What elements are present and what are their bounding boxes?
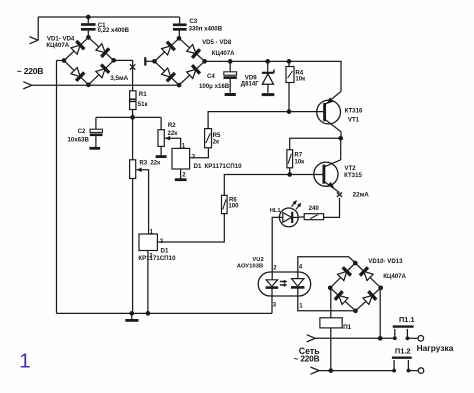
label 3,5mA	[110, 75, 128, 82]
label R7 value	[294, 159, 305, 166]
HL1 light arrows	[292, 200, 302, 209]
node: bridge3 right	[378, 285, 383, 290]
current break mark X (22mA)	[337, 192, 342, 197]
label KT316	[345, 108, 363, 115]
label C1	[98, 22, 106, 29]
node: bridge2 bottom	[177, 83, 182, 88]
wire: bottom AC line to bridge VD1-VD4 and VD5-VD8	[32, 84, 179, 86]
page number 1	[19, 351, 30, 373]
svg-text:10х63В: 10х63В	[68, 137, 90, 144]
IC D1 (КР1171СП10, lower) box	[139, 234, 157, 251]
svg-text:2к: 2к	[213, 138, 220, 145]
svg-text:C2: C2	[78, 128, 86, 135]
label KT315	[344, 172, 362, 179]
node: bridge1 top	[86, 35, 91, 40]
label VT2	[345, 165, 357, 172]
node: R4 / VT1 base line	[287, 109, 292, 114]
pin 4 label (VU2)	[299, 265, 303, 271]
current break mark X (3,5mA)	[130, 64, 135, 69]
svg-text:22к: 22к	[150, 160, 161, 167]
pin 2 label (VU2)	[273, 265, 277, 271]
svg-text:Нагрузка: Нагрузка	[417, 343, 454, 353]
VT1 emitter arrow (to base)	[326, 97, 333, 104]
node: ground junction	[129, 311, 134, 316]
diode VD1 (bridge arm left-top)	[71, 41, 84, 54]
svg-text:R1: R1	[139, 91, 147, 98]
label AOU103V	[237, 263, 263, 269]
wire: bridge3 left node down through relay	[330, 288, 332, 318]
capacitor C3	[173, 17, 187, 38]
node: rail/R4	[287, 59, 292, 64]
node: bridge1 right	[111, 58, 116, 63]
node: bridge1 bottom	[86, 82, 91, 87]
VT1 collector lead	[326, 91, 341, 104]
diode VD13 (bridge arm bottom-right)	[363, 291, 376, 304]
VT1 base bar	[323, 103, 326, 121]
VU2 photodiode	[291, 272, 304, 296]
node: D1 pin2 junction on rail	[146, 311, 151, 316]
diode VD8 (bridge arm bottom-right)	[187, 65, 200, 78]
node: rail/VD9	[265, 59, 270, 64]
wire: input up to top rail	[37, 17, 39, 41]
transistor VT2 KT315 (circle)	[314, 162, 338, 186]
capacitor C1	[81, 17, 96, 37]
svg-text:2: 2	[273, 265, 277, 271]
HL1 diode symbol	[279, 212, 298, 223]
VT1 emitter lead	[326, 120, 341, 138]
diode VD7 (bridge arm left-bottom)	[162, 68, 175, 81]
wire: common rail (bottom)	[57, 312, 273, 314]
node: relay coil / lower mains	[328, 368, 333, 373]
IC D1 (КР1171СП10) box	[172, 148, 190, 169]
common bar (R2 bottom)	[156, 146, 167, 156]
label KTs407A (VD10-VD13)	[383, 273, 406, 280]
LED HL1 (circle)	[279, 208, 298, 227]
svg-text:330п х400В: 330п х400В	[189, 25, 223, 32]
transistor VT1 KT316 (circle)	[317, 100, 341, 124]
wire: lower mains wire	[319, 370, 394, 372]
node: VT1 emitter / VT2 collector / R7	[338, 136, 343, 141]
svg-text:3: 3	[273, 303, 277, 309]
svg-text:~ 220В: ~ 220В	[294, 354, 320, 364]
stub terminal at bridge2 left node	[145, 57, 154, 65]
svg-text:КЦ407А: КЦ407А	[383, 273, 406, 280]
label C1 value	[98, 27, 130, 34]
label VT1	[348, 117, 360, 124]
resistor R5	[205, 129, 212, 148]
svg-text:22мА: 22мА	[353, 192, 370, 199]
svg-text:П1.1: П1.1	[399, 315, 415, 324]
diode VD6 (bridge arm top-right)	[187, 45, 200, 58]
wire: VU2 pin 3 to common rail	[271, 296, 273, 313]
label D1 (lower)	[161, 247, 169, 254]
wire: VU2 pin 1 to bridge3 bottom	[298, 296, 356, 311]
label KTs407A (VD5-VD8)	[212, 50, 235, 57]
mains input terminal (lower)	[311, 367, 320, 374]
label R3 value	[150, 160, 161, 167]
wire: bridge1 right node to R1	[114, 60, 133, 90]
node: bridge2 right	[202, 59, 207, 64]
wire: node to R7	[290, 138, 341, 150]
wire: bridge1 left node to left rail	[57, 60, 65, 62]
resistor R2 (trimmer)	[158, 130, 164, 147]
svg-text:51к: 51к	[138, 101, 149, 108]
zener diode VD9	[262, 61, 274, 92]
diode bridge VD1-VD4 outline	[64, 37, 114, 84]
svg-text:C4: C4	[207, 73, 215, 80]
label Nagruzka (load)	[417, 343, 454, 353]
pin 3 label (VU2)	[273, 303, 277, 309]
diode bridge VD10-VD13 outline	[330, 263, 381, 311]
label VD1-VD4	[47, 35, 75, 42]
label R1	[139, 91, 147, 98]
common bar (C4 negative)	[225, 93, 236, 96]
pin 2 of lower D1 to common rail	[147, 251, 149, 314]
pin 3 label (D1 lower)	[160, 239, 164, 245]
VT2 emitter arrow	[328, 182, 335, 188]
VU2 coupling arrows	[280, 280, 288, 287]
wire: R3 bottom to common rail	[132, 179, 134, 314]
svg-text:КР1171СП10: КР1171СП10	[138, 255, 176, 262]
node: R1/C2/R2/R3 junction	[130, 115, 135, 120]
svg-text:1: 1	[299, 304, 303, 310]
capacitor C2 (electrolytic)	[90, 117, 103, 147]
svg-text:VU2: VU2	[252, 257, 263, 263]
label C4 value	[199, 83, 230, 90]
VT2 emitter lead	[325, 182, 340, 193]
wire: bridge3 right node down	[379, 288, 381, 339]
wire: left rail (negative) down	[56, 61, 58, 314]
label R5	[213, 132, 221, 139]
wire: relay coil to lower mains wire	[330, 328, 332, 371]
wire: VT2 emitter to resistor 240	[324, 198, 340, 218]
label VD5-VD8	[202, 39, 232, 46]
svg-text:VT1: VT1	[348, 117, 360, 124]
label R4 value	[295, 76, 306, 83]
resistor R4	[286, 61, 294, 111]
wiper of R3 to pin 1 of D1 (second)	[136, 168, 148, 235]
svg-text:100: 100	[228, 203, 239, 210]
node: bridge2 top	[177, 36, 182, 41]
relay coil P1	[320, 318, 342, 328]
label R2 value	[168, 130, 179, 137]
svg-text:2: 2	[182, 173, 186, 179]
svg-text:3,5мА: 3,5мА	[110, 75, 128, 82]
svg-text:HL1: HL1	[270, 208, 281, 214]
node: upper mains / bridge3 right	[378, 336, 383, 341]
wire: 240 to HL1	[298, 216, 304, 218]
label 240	[309, 205, 320, 212]
svg-text:Д814Г: Д814Г	[241, 81, 260, 88]
resistor R1	[130, 91, 136, 110]
wire: R6 top to VT2 base line	[224, 175, 322, 196]
diode VD4 (bridge arm bottom-right)	[96, 65, 109, 78]
label VU2	[252, 257, 263, 263]
label KR1171SP10 (lower)	[138, 255, 176, 262]
svg-text:~ 220В: ~ 220В	[17, 66, 44, 76]
wire: junction bus	[96, 116, 161, 118]
diode VD10 (bridge arm left-top)	[338, 267, 351, 280]
resistor 240	[304, 214, 323, 220]
node: bridge3 bottom	[353, 308, 358, 313]
label HL1	[270, 208, 281, 214]
svg-text:D1: D1	[161, 247, 169, 254]
svg-text:0,22 х400В: 0,22 х400В	[98, 27, 130, 34]
node: bridge3 top	[353, 261, 358, 266]
optocoupler VU2 body	[258, 272, 311, 296]
node: rail/C4	[228, 59, 233, 64]
diode bridge VD5-VD8 outline	[155, 38, 205, 85]
svg-text:D1: D1	[194, 163, 202, 170]
wire: junction to R3	[132, 117, 134, 159]
svg-text:4: 4	[299, 265, 303, 271]
label R5 value	[213, 138, 220, 145]
svg-text:1: 1	[19, 351, 30, 373]
label P1.1	[399, 315, 415, 324]
label R6 value	[228, 203, 239, 210]
label D1	[194, 163, 202, 170]
resistor R3 (trimmer)	[130, 160, 136, 179]
mains input terminal (upper)	[307, 335, 316, 342]
svg-text:КТ316: КТ316	[345, 108, 363, 115]
diode VD12 (bridge arm bottom-left)	[335, 291, 348, 304]
diode VD5 (bridge arm left-top)	[162, 42, 175, 55]
label VD10-VD13	[368, 258, 403, 265]
label R2	[168, 122, 176, 129]
label KTs407A (VD1-VD4)	[46, 42, 69, 49]
common bar (C2 negative)	[89, 147, 100, 150]
wire: upper mains wire	[315, 337, 395, 339]
label P1	[343, 324, 352, 331]
wire: bus to R2	[160, 117, 162, 129]
input terminal (AC line, bottom)	[23, 82, 32, 89]
label C3	[189, 18, 197, 25]
label KR1171SP10	[205, 163, 243, 170]
wire: R7 to VT2 base line	[289, 168, 291, 175]
relay contact P1.1	[393, 327, 424, 342]
svg-text:100μ х16В: 100μ х16В	[199, 83, 230, 90]
wiper of R2 to pin 1 of D1	[165, 136, 181, 149]
svg-text:10к: 10к	[294, 159, 305, 166]
label R3	[139, 160, 147, 167]
label R4	[295, 69, 303, 76]
pin 2 label (D1)	[182, 173, 186, 179]
pin 2 of D1 with common bar	[175, 169, 187, 180]
pin 3 of lower D1 to R6	[157, 214, 224, 242]
label R7	[294, 151, 302, 158]
label C3 value	[189, 25, 223, 32]
wire: R1 bottom to junction	[132, 110, 134, 118]
wire: HL1 to optocoupler pin 2	[272, 217, 279, 272]
svg-text:КЦ407А: КЦ407А	[212, 50, 235, 57]
diode VD3 (bridge arm left-bottom)	[71, 68, 84, 81]
label R6	[229, 197, 237, 204]
diode VD2 (bridge arm top-right)	[96, 44, 109, 57]
pin 2 label (D1 lower)	[149, 254, 153, 260]
node: bridge1 left	[62, 58, 67, 63]
svg-text:П1: П1	[343, 324, 352, 331]
pin 3 label (D1)	[192, 155, 196, 161]
label C4	[207, 73, 215, 80]
input terminal (AC line, top)	[30, 37, 39, 44]
node: R7 / VT2 base	[287, 172, 292, 177]
svg-text:10к: 10к	[295, 76, 306, 83]
svg-text:КР1171СП10: КР1171СП10	[205, 163, 243, 170]
svg-text:22к: 22к	[168, 130, 179, 137]
resistor R6	[222, 195, 228, 213]
pin 1 label (D1)	[182, 144, 186, 150]
svg-text:VD10- VD13: VD10- VD13	[368, 258, 403, 265]
svg-text:АОУ103В: АОУ103В	[237, 263, 263, 269]
wire: VU2 pin 4 to bridge3 top	[298, 257, 356, 272]
label VD9	[245, 75, 257, 82]
svg-text:КТ315: КТ315	[344, 172, 362, 179]
common bar (VD9 anode)	[262, 93, 275, 96]
node: top rail / C1 junction	[86, 15, 91, 20]
diode VD11 (bridge arm right-top)	[360, 267, 373, 280]
label R1 value	[138, 101, 149, 108]
svg-text:R2: R2	[168, 122, 176, 129]
label P1.2	[395, 347, 411, 356]
svg-text:VD5 - VD8: VD5 - VD8	[202, 39, 232, 46]
ground	[125, 313, 138, 320]
svg-text:R3: R3	[139, 160, 147, 167]
label C2 value	[68, 137, 90, 144]
label ~220V (mains)	[294, 354, 320, 364]
label C2	[78, 128, 86, 135]
wire: R5 top to VT1 base line	[208, 112, 323, 129]
pin 3 of D1 to R5	[190, 148, 209, 158]
label D814G	[241, 81, 260, 88]
label 22mA	[353, 192, 370, 199]
wire: +9V rail from bridge2 to VT1 collector	[205, 61, 341, 91]
relay contact P1.2	[392, 358, 424, 374]
pin 1 label (VU2)	[299, 304, 303, 310]
label ~220V (left)	[17, 66, 44, 76]
capacitor C4 (electrolytic)	[224, 61, 237, 92]
svg-text:R7: R7	[294, 151, 302, 158]
node: bridge2 left	[152, 59, 157, 64]
svg-text:КЦ407А: КЦ407А	[46, 42, 69, 49]
VU2 LED	[266, 272, 279, 296]
label Set'	[299, 346, 320, 356]
svg-text:П1.2: П1.2	[395, 347, 411, 356]
VT2 base bar	[322, 165, 325, 184]
svg-text:240: 240	[309, 205, 320, 212]
resistor R7	[287, 150, 293, 168]
wire: top rail	[38, 16, 179, 18]
VT2 collector lead	[325, 138, 341, 166]
svg-text:C3: C3	[189, 18, 197, 25]
pin 1 label (D1 lower)	[150, 229, 154, 235]
node: bridge3 left	[328, 285, 333, 290]
